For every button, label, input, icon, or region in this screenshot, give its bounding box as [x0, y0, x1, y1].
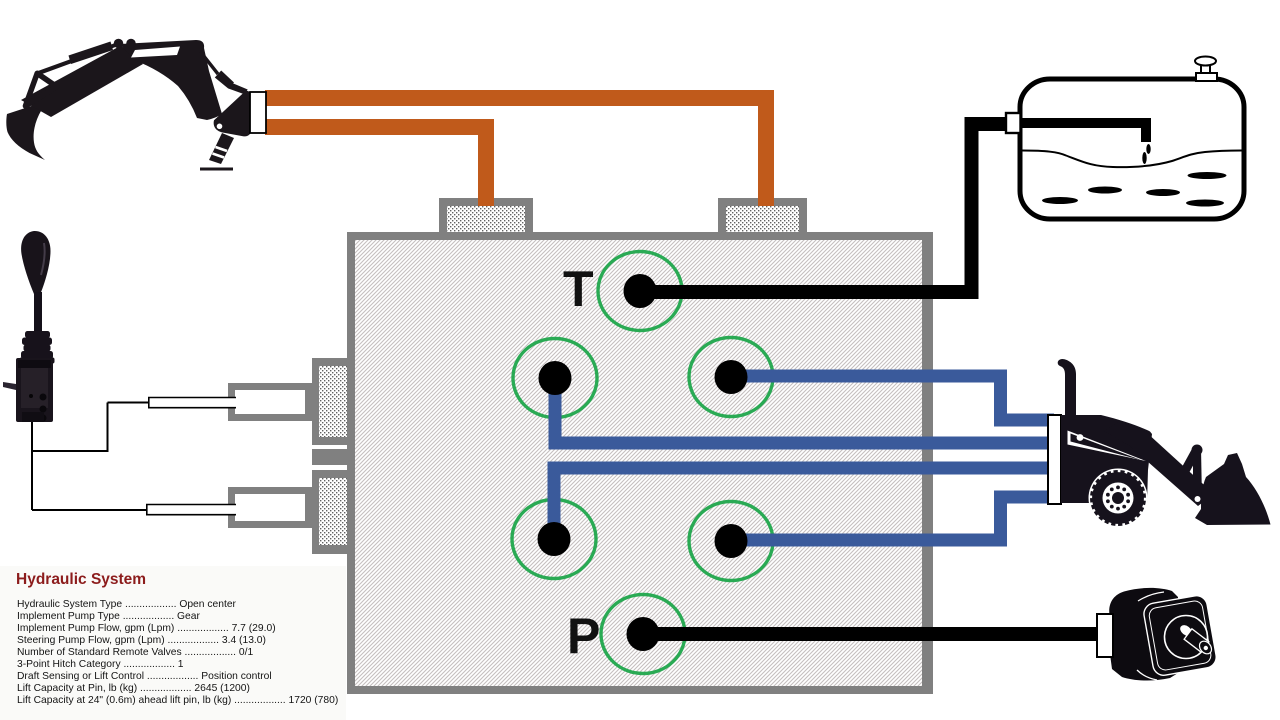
blue pipe from lower-right port to loader plate	[731, 497, 1054, 547]
knob	[21, 231, 50, 294]
bucket	[6, 105, 45, 161]
left tab lower	[312, 470, 355, 554]
bellows	[20, 331, 55, 364]
orange pipe upper (backhoe to right tab)	[265, 98, 766, 206]
loader connect plate	[1048, 415, 1061, 504]
port P dot	[627, 617, 660, 651]
port P green ring	[601, 595, 685, 674]
pivot circles	[114, 39, 124, 49]
black pipe T port to tank	[640, 117, 1007, 299]
body	[16, 358, 53, 422]
fluid surface	[1023, 151, 1242, 168]
port T green ring	[598, 252, 682, 331]
cab pivot dot	[1077, 434, 1084, 441]
wheel	[1089, 469, 1148, 528]
boom cylinder left	[37, 42, 120, 76]
valve block body	[347, 232, 933, 694]
buttons	[40, 394, 47, 401]
stabilizer foot	[200, 168, 233, 171]
port D dot	[715, 524, 748, 558]
blue pipe from lower-left port to loader plate	[548, 468, 1055, 539]
white window in boom	[131, 47, 180, 58]
rotor circle	[1165, 616, 1208, 659]
exhaust stack	[1058, 359, 1076, 415]
left tab upper	[312, 358, 355, 445]
port B green ring (upper right)	[689, 338, 773, 417]
stabilizer stripes	[213, 147, 228, 158]
hydraulic pump	[1097, 588, 1218, 681]
port T dot	[624, 274, 657, 308]
blue pipe from upper-left port to loader plate	[549, 378, 1055, 443]
blue pipe from upper-right port to loader plate	[731, 370, 1054, 421]
pump inlet connector	[1097, 614, 1113, 657]
dipper arm	[21, 46, 143, 118]
flange back plate outline	[1137, 592, 1164, 680]
cab arm member white outline	[1068, 431, 1201, 503]
black pipe P port to pump	[643, 627, 1100, 641]
hydraulic cylinder upper	[149, 383, 312, 421]
bucket	[1195, 453, 1271, 525]
port A dot	[539, 361, 572, 395]
fluid dashes	[1042, 197, 1078, 204]
orange pipe lower (backhoe to left tab)	[265, 127, 486, 206]
pump body	[1109, 588, 1178, 681]
joystick wires	[32, 403, 150, 511]
port A green ring (upper left)	[513, 339, 597, 418]
port D green ring (lower right)	[689, 502, 773, 581]
backhoe mount plate	[250, 92, 266, 133]
specification text panel	[0, 566, 346, 720]
top tab right	[718, 198, 807, 232]
side lever	[3, 382, 16, 390]
left tab connector	[312, 449, 348, 465]
linkage triangle	[25, 73, 56, 106]
shaft	[34, 292, 42, 334]
top tab left	[439, 198, 533, 232]
tank shell	[1020, 79, 1244, 219]
loader tractor icon	[1058, 359, 1271, 525]
joystick control	[3, 231, 55, 422]
loader arm	[1104, 421, 1214, 506]
swing frame pivot dot	[217, 124, 223, 130]
boom cylinder right	[199, 51, 219, 75]
shaft	[1178, 623, 1194, 638]
drips	[1146, 144, 1150, 154]
port C green ring (lower left)	[512, 500, 596, 579]
V linkage	[1176, 447, 1201, 482]
port B dot	[715, 360, 748, 394]
tank internal pipe	[1021, 123, 1146, 142]
boom	[120, 40, 222, 120]
tank inlet connector	[1006, 113, 1021, 133]
port C dot	[538, 522, 571, 556]
backhoe attachment icon	[6, 39, 252, 171]
bucket link pivot dot	[1195, 496, 1201, 502]
svg-text:T: T	[563, 261, 594, 317]
hydraulic tank	[1006, 57, 1244, 220]
svg-text:P: P	[567, 608, 600, 664]
tank filler cap	[1195, 57, 1217, 82]
cab and body	[1061, 415, 1152, 503]
swing frame	[214, 91, 252, 137]
stabilizer leg	[209, 133, 234, 164]
pump flange	[1142, 594, 1218, 677]
hydraulic cylinder lower	[147, 487, 312, 528]
